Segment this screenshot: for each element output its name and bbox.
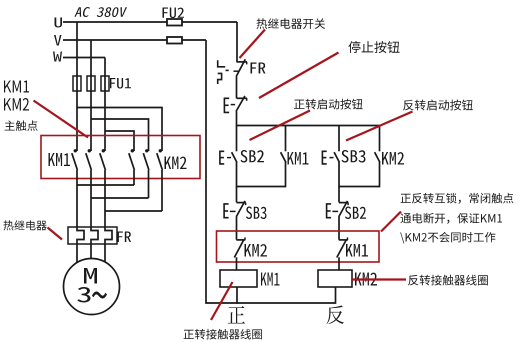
wire SB3NC to KM2NC	[236, 216, 238, 239]
coil KM1	[220, 270, 257, 287]
red box main contacts	[41, 136, 200, 179]
note interlock line3	[400, 232, 495, 244]
note fwd start	[294, 99, 363, 110]
note fwd coil	[184, 329, 262, 340]
wire W phase horizontal	[63, 57, 105, 59]
wire KM2NC to coil	[236, 257, 238, 270]
fuse FU1a	[73, 76, 81, 91]
fuse FU2b	[167, 37, 182, 44]
wire control feed from U	[236, 22, 238, 62]
label FU2	[163, 8, 185, 19]
note interlock line2	[400, 213, 502, 224]
wire SB3 bottom	[338, 162, 340, 187]
label KM2 NC	[245, 244, 268, 257]
label SB2	[241, 150, 265, 163]
label KM2 main	[165, 157, 187, 170]
label FR power	[118, 232, 132, 243]
wire to SB2 NC	[338, 187, 340, 203]
wire crossover W to KM2a	[105, 131, 134, 151]
contact KM1 pole3	[100, 149, 106, 170]
fuse FU1c	[101, 76, 109, 91]
label reverse	[327, 306, 345, 325]
button SB3 NC interlock	[224, 201, 246, 218]
wire U phase drop	[76, 22, 78, 151]
motor M circle	[64, 259, 120, 315]
contact KM2 NC interlock	[234, 237, 245, 257]
button SB2 NO	[220, 151, 237, 164]
wire crossover V to KM2b	[91, 119, 149, 151]
leader thermal switch	[240, 30, 266, 59]
label SB3	[342, 150, 366, 163]
note thermal switch	[257, 18, 326, 29]
wire to SB3 NC	[236, 187, 238, 203]
leader main contacts	[34, 101, 89, 138]
wire bus drop KM2aux	[379, 126, 381, 152]
wire FR to stop	[236, 77, 238, 99]
wire KM2c bottom	[161, 170, 163, 211]
leader fwd coil	[211, 282, 233, 320]
wire KM1 pole bottoms	[77, 170, 105, 227]
wire bottom return	[206, 302, 336, 304]
wire control bus	[237, 125, 381, 127]
phase label V	[54, 35, 62, 46]
leader interlock	[381, 212, 401, 232]
label forward	[228, 306, 245, 324]
wire through FU1	[77, 76, 105, 91]
wire stop to bus	[236, 112, 238, 127]
wire crossover U to KM2c	[77, 108, 162, 152]
contact KM2 pole3	[157, 149, 163, 170]
fuse FU1b	[87, 76, 95, 91]
wire rejoin right branch	[339, 186, 380, 188]
wire SB2 bottom	[236, 162, 238, 187]
wire SB2NC to KM1NC	[338, 216, 340, 239]
label KM2 aux	[382, 152, 404, 165]
wire V phase horizontal	[63, 39, 206, 41]
note rev coil	[408, 275, 488, 286]
label FR control	[251, 63, 266, 74]
leader fwd start	[250, 111, 311, 141]
phase label U	[55, 18, 63, 28]
heater element 2	[91, 227, 98, 244]
note main-contact	[5, 120, 38, 130]
heater element 1	[77, 227, 84, 244]
fuse FU2a	[167, 19, 182, 26]
wire KM1aux bottom	[285, 162, 287, 187]
phase label W	[53, 52, 62, 62]
wire KM1NC to coil	[338, 257, 340, 270]
label coil KM2	[355, 273, 377, 286]
contact KM1 aux NO	[281, 152, 286, 162]
wire KM2b bottom	[148, 170, 150, 198]
contact KM1 pole2	[86, 149, 92, 170]
wire bus drop SB3	[338, 126, 340, 152]
wire bus drop KM1aux	[285, 126, 287, 152]
contact KM2 pole1	[129, 149, 135, 170]
contact KM1 NC interlock	[337, 237, 348, 257]
contact KM2 aux NO	[375, 152, 380, 162]
contact KM1 pole1	[72, 149, 78, 170]
leader stop button	[259, 53, 339, 99]
label SB2 NC	[345, 207, 366, 220]
note rev start	[403, 100, 473, 111]
note stop button	[348, 41, 399, 53]
note thermal relay	[4, 220, 47, 230]
stop button SB1 NC	[224, 96, 247, 113]
wire KM2a bottom	[133, 170, 135, 185]
thermal relay FR box	[68, 227, 117, 244]
wire bus drop SB2	[236, 126, 238, 152]
contact KM2 pole2	[143, 149, 149, 170]
label SB3 NC	[246, 207, 267, 220]
motor label M	[84, 268, 97, 284]
wire U phase horizontal	[63, 21, 237, 23]
label KM1 NC	[346, 244, 368, 257]
wire join phase2	[91, 197, 149, 199]
wire KM2aux bottom	[379, 162, 381, 187]
label KM1 main	[49, 153, 71, 166]
wire motor leads	[77, 244, 105, 264]
button SB2 NC interlock	[327, 201, 349, 218]
wire rejoin left branch	[237, 186, 286, 188]
thermal actuator symbol	[218, 60, 229, 84]
label AC 380V	[74, 7, 127, 17]
label KM1 aux	[288, 152, 309, 165]
wire coil KM2 bottom	[335, 287, 337, 304]
note KM1 left	[4, 81, 29, 93]
note KM2 left	[4, 98, 29, 111]
leader thermal relay	[48, 228, 63, 240]
leader rev start	[346, 112, 413, 141]
wire join phase3	[105, 210, 162, 212]
wire join phase1	[77, 184, 134, 186]
wire V rail	[205, 40, 207, 304]
note interlock line1	[401, 193, 514, 204]
wire W phase drop	[104, 58, 106, 152]
contact FR NC	[234, 59, 248, 76]
label FU1	[110, 78, 131, 89]
wire V phase drop	[90, 40, 92, 151]
button SB3 NO	[322, 151, 339, 164]
coil KM2	[318, 270, 352, 287]
red box interlock	[217, 231, 380, 262]
label coil KM1	[261, 273, 280, 286]
leader rev coil	[352, 278, 406, 280]
heater element 3	[105, 227, 112, 244]
motor label 3~	[77, 287, 107, 303]
wire coil KM1 bottom	[236, 287, 238, 304]
